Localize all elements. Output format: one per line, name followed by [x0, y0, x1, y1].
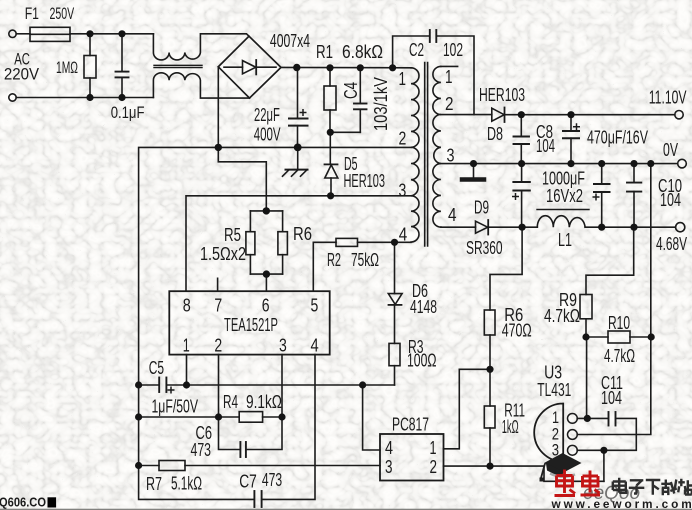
- wire sec pin2: [441, 114, 492, 116]
- capacitor 470uF/16V: [570, 115, 572, 131]
- choke top winding: [153, 34, 249, 60]
- plus signs: [168, 109, 600, 394]
- svg-text:3: 3: [399, 181, 407, 201]
- svg-text:6.8kΩ: 6.8kΩ: [342, 42, 383, 62]
- junction R5R6 bottom: [263, 270, 270, 277]
- capacitor 0.1uF: [121, 34, 123, 72]
- svg-text:1MΩ: 1MΩ: [56, 59, 78, 77]
- IC U3 TL431 body: [534, 404, 563, 462]
- wire TL431 ref line + C11: [577, 417, 608, 419]
- svg-text:HER103: HER103: [344, 171, 386, 191]
- svg-text:4.7kΩ: 4.7kΩ: [544, 306, 580, 326]
- IC U1 TEA1521P: [169, 291, 329, 354]
- junction C8 top: [518, 111, 525, 118]
- junction 0V ground bar: [470, 160, 477, 167]
- svg-text:100Ω: 100Ω: [407, 350, 437, 370]
- svg-text:2: 2: [430, 457, 438, 477]
- wire pin3 drop: [281, 355, 283, 417]
- wire pin2 path: [444, 466, 604, 481]
- svg-text:473: 473: [191, 440, 212, 460]
- junction R6-R11 / PC817 pin1: [486, 366, 493, 373]
- diode D8: [492, 108, 504, 121]
- capacitor C6 loop: [219, 417, 241, 450]
- svg-text:4: 4: [399, 225, 408, 245]
- capacitor C8: [520, 115, 522, 137]
- svg-text:4: 4: [311, 336, 319, 356]
- svg-text:C5: C5: [149, 358, 164, 378]
- wire 0V to TL431 anode: [577, 164, 651, 435]
- junction C2 branch: [389, 64, 396, 71]
- svg-text:1: 1: [399, 69, 407, 89]
- svg-text:102: 102: [443, 40, 463, 60]
- svg-text:4: 4: [448, 205, 457, 225]
- svg-text:400V: 400V: [254, 124, 281, 144]
- pin7 stub: [217, 278, 219, 291]
- svg-text:L1: L1: [558, 230, 572, 250]
- capacitor C10: [633, 164, 635, 183]
- wire: [70, 33, 153, 35]
- cap board: [544, 453, 582, 473]
- black site name glyphs (dianzi xiazaizhan): [613, 478, 692, 496]
- junction TL431 cathode: [600, 447, 607, 454]
- resistor R3: [389, 343, 400, 365]
- svg-text:www.eeworm.com: www.eeworm.com: [551, 497, 692, 510]
- svg-text:D9: D9: [474, 197, 489, 217]
- svg-text:4.68V: 4.68V: [656, 234, 687, 254]
- wire pin1 line: [167, 384, 395, 386]
- svg-text:8: 8: [183, 296, 191, 316]
- junction D9 cathode rail: [519, 224, 526, 231]
- svg-text:2: 2: [445, 94, 454, 114]
- svg-text:TEA1521P: TEA1521P: [224, 315, 278, 335]
- wire: [16, 97, 153, 99]
- junction C10 bottom / R9 branch: [630, 224, 637, 231]
- junction R1-C4 bottom: [327, 129, 334, 136]
- junction bridge minus rail: [215, 144, 222, 151]
- junction D5 anode / pin8 line: [327, 192, 334, 199]
- wire sec pin4: [441, 226, 476, 228]
- svg-text:22μF: 22μF: [254, 105, 280, 125]
- svg-text:1kΩ: 1kΩ: [502, 417, 519, 437]
- svg-text:4007x4: 4007x4: [270, 31, 310, 51]
- junction 470uF bottom: [567, 160, 574, 167]
- junction bridge output / 22uF: [293, 64, 300, 71]
- junction 1000uF-b top: [598, 160, 605, 167]
- svg-text:7: 7: [214, 296, 222, 316]
- diode D5: [329, 132, 331, 164]
- svg-text:6: 6: [262, 296, 270, 316]
- svg-text:SR360: SR360: [466, 238, 503, 258]
- resistor R11: [484, 406, 495, 428]
- wire TL431 cathode drop: [603, 450, 605, 481]
- junction pin2 R4 left: [215, 413, 222, 420]
- wire bottom rail to pin4: [262, 355, 315, 500]
- resistor R7: [139, 465, 159, 467]
- svg-text:250V: 250V: [50, 5, 75, 23]
- junction left rail C5: [135, 381, 142, 388]
- wire DC+ rail: [281, 66, 411, 68]
- junction R10 right: [648, 333, 655, 340]
- choke core: [154, 64, 202, 66]
- svg-text:R10: R10: [608, 313, 630, 333]
- label underline 16Vx2: [537, 209, 589, 211]
- svg-text:9.1kΩ: 9.1kΩ: [246, 392, 282, 412]
- capacitor C7: [253, 491, 255, 507]
- wire pin1 path: [444, 369, 491, 449]
- svg-text:470Ω: 470Ω: [502, 321, 532, 341]
- junction PC817 pin4 branch: [359, 381, 366, 388]
- junction R2-D6 / pin4 winding: [391, 239, 398, 246]
- bridge rectifier 4007x4: [218, 36, 281, 98]
- junction 22uF bottom / ground: [294, 144, 302, 152]
- junction R11 bottom / PC817 pin2: [486, 463, 493, 470]
- svg-text:R4: R4: [223, 392, 238, 412]
- wire 0V rail: [441, 163, 678, 165]
- svg-text:473: 473: [262, 470, 282, 490]
- capacitor 22uF/400V: [297, 68, 299, 119]
- svg-text:220V: 220V: [4, 65, 39, 83]
- zai: [661, 480, 677, 496]
- wire pin5 to R2: [313, 242, 336, 291]
- wire pin4 path: [363, 385, 380, 450]
- capacitor C2: [393, 36, 430, 68]
- pin number labels: [183, 67, 559, 477]
- terminal 4.68V: [676, 223, 685, 232]
- terminal AC top: [9, 30, 16, 37]
- junction 1M-ohm top: [86, 30, 93, 37]
- svg-text:C4: C4: [341, 82, 361, 99]
- svg-text:C7: C7: [239, 471, 257, 491]
- svg-text:1: 1: [430, 438, 437, 458]
- watermark group: [540, 453, 692, 510]
- svg-text:16Vx2: 16Vx2: [546, 186, 583, 206]
- bottom edge line: [0, 509, 692, 510]
- svg-text:5.1kΩ: 5.1kΩ: [171, 474, 202, 494]
- svg-text:104: 104: [660, 190, 681, 210]
- resistor R6a: [282, 211, 284, 232]
- resistor R5: [249, 211, 251, 232]
- svg-text:R6: R6: [293, 224, 312, 244]
- svg-text:4148: 4148: [410, 297, 437, 317]
- terminal AC bottom: [9, 94, 16, 101]
- wire R5R6 bars: [250, 210, 282, 212]
- svg-text:5: 5: [311, 296, 319, 316]
- svg-text:C2: C2: [409, 40, 424, 60]
- wire R5R6 branch: [218, 147, 266, 211]
- transformer primary winding: [411, 68, 419, 242]
- resistor R9: [580, 295, 592, 319]
- junction C8 bottom / 1000uF: [518, 160, 525, 167]
- resistor 1M: [89, 34, 91, 56]
- inductor L1: [537, 216, 585, 228]
- wire secondary pin1 stub: [441, 65, 458, 67]
- wire R9 feed: [586, 227, 634, 294]
- resistor R10: [586, 336, 608, 338]
- wire bridge minus drop: [217, 67, 219, 148]
- svg-text:3: 3: [279, 336, 287, 356]
- svg-text:F1: F1: [25, 5, 39, 23]
- svg-text:R5: R5: [224, 225, 241, 245]
- junction 0V anode branch: [647, 160, 654, 167]
- junction C10 top: [630, 160, 637, 167]
- svg-text:2: 2: [399, 129, 407, 149]
- svg-text:0.1μF: 0.1μF: [111, 104, 145, 122]
- wire primary ground rail: [139, 147, 411, 499]
- resistor R1: [329, 68, 331, 86]
- svg-text:4: 4: [385, 438, 393, 458]
- diode D9: [476, 221, 488, 233]
- wire 4.68V rail: [488, 226, 537, 228]
- resistor R4: [139, 416, 240, 418]
- svg-text:3: 3: [385, 457, 393, 477]
- wire 11.10V rail: [505, 114, 675, 116]
- junction pin1 line: [183, 381, 190, 388]
- svg-text:75kΩ: 75kΩ: [351, 250, 379, 270]
- wire pin4 transformer: [395, 241, 412, 243]
- junction left rail R7 line: [135, 462, 142, 469]
- svg-text:HER103: HER103: [479, 85, 525, 105]
- svg-text:D8: D8: [487, 124, 503, 144]
- svg-text:1: 1: [445, 67, 453, 87]
- diode D6: [394, 242, 396, 293]
- ground bar secondary: [473, 164, 475, 178]
- svg-text:R1: R1: [316, 42, 333, 62]
- choke bottom winding: [153, 73, 249, 98]
- IC U2 PC817: [380, 434, 444, 481]
- junction C4 top: [357, 64, 364, 71]
- ground symbol primary: [297, 147, 299, 168]
- junction left rail R4 line: [135, 413, 142, 420]
- svg-text:1μF/50V: 1μF/50V: [152, 396, 199, 416]
- svg-text:0V: 0V: [663, 140, 678, 160]
- capacitor C4: [359, 68, 361, 104]
- dian: [613, 478, 626, 493]
- junction R1 top: [326, 64, 333, 71]
- capacitor C5: [139, 384, 159, 386]
- junction pin3 R4 right: [278, 413, 285, 420]
- svg-text:2: 2: [214, 336, 222, 356]
- wire: [16, 33, 30, 35]
- capacitor 1000uF b: [601, 164, 603, 184]
- svg-text:103/1kV: 103/1kV: [371, 77, 391, 131]
- svg-text:1.5Ωx2: 1.5Ωx2: [200, 244, 246, 264]
- wire pin8 line: [186, 196, 411, 291]
- junction TL431 ref: [584, 415, 591, 422]
- svg-text:R2: R2: [327, 250, 341, 270]
- terminal 11.10V: [675, 111, 683, 119]
- junction R9-R10 divider: [582, 333, 589, 340]
- terminal 0V: [678, 159, 687, 168]
- svg-text:TL431: TL431: [537, 380, 571, 400]
- capacitor 1000uF a: [521, 164, 523, 182]
- resistor R6: [484, 310, 495, 335]
- svg-text:Q606.CO: Q606.CO: [0, 495, 46, 510]
- svg-text:104: 104: [601, 388, 622, 408]
- svg-text:PC817: PC817: [392, 415, 429, 435]
- wire pin2 drop: [218, 355, 220, 417]
- fuse F1: [30, 27, 70, 41]
- wire ref divider drop: [586, 337, 588, 418]
- svg-text:470μF/16V: 470μF/16V: [587, 128, 648, 148]
- xia: [646, 480, 661, 495]
- wire R6 feed: [490, 227, 522, 310]
- junction 0.1uF bottom: [118, 94, 125, 101]
- junction R5R6 top: [263, 207, 270, 214]
- junction 1000uF-b bottom: [598, 224, 605, 231]
- red chongchong: [555, 470, 601, 496]
- transformer core: [424, 63, 426, 247]
- junction 470uF top: [567, 111, 574, 118]
- zi: [629, 480, 645, 493]
- labels: [4, 5, 145, 122]
- svg-text:R7: R7: [146, 474, 162, 494]
- junction 1M-ohm bottom: [86, 94, 93, 101]
- svg-text:4.7kΩ: 4.7kΩ: [604, 346, 635, 366]
- svg-text:1: 1: [183, 336, 190, 356]
- svg-text:104: 104: [536, 136, 555, 156]
- junction 0.1uF top: [118, 30, 125, 37]
- svg-text:3: 3: [447, 146, 455, 166]
- resistor R2: [336, 238, 358, 246]
- transformer secondary winding: [433, 66, 441, 227]
- zhan: [678, 479, 692, 495]
- svg-text:11.10V: 11.10V: [649, 88, 687, 108]
